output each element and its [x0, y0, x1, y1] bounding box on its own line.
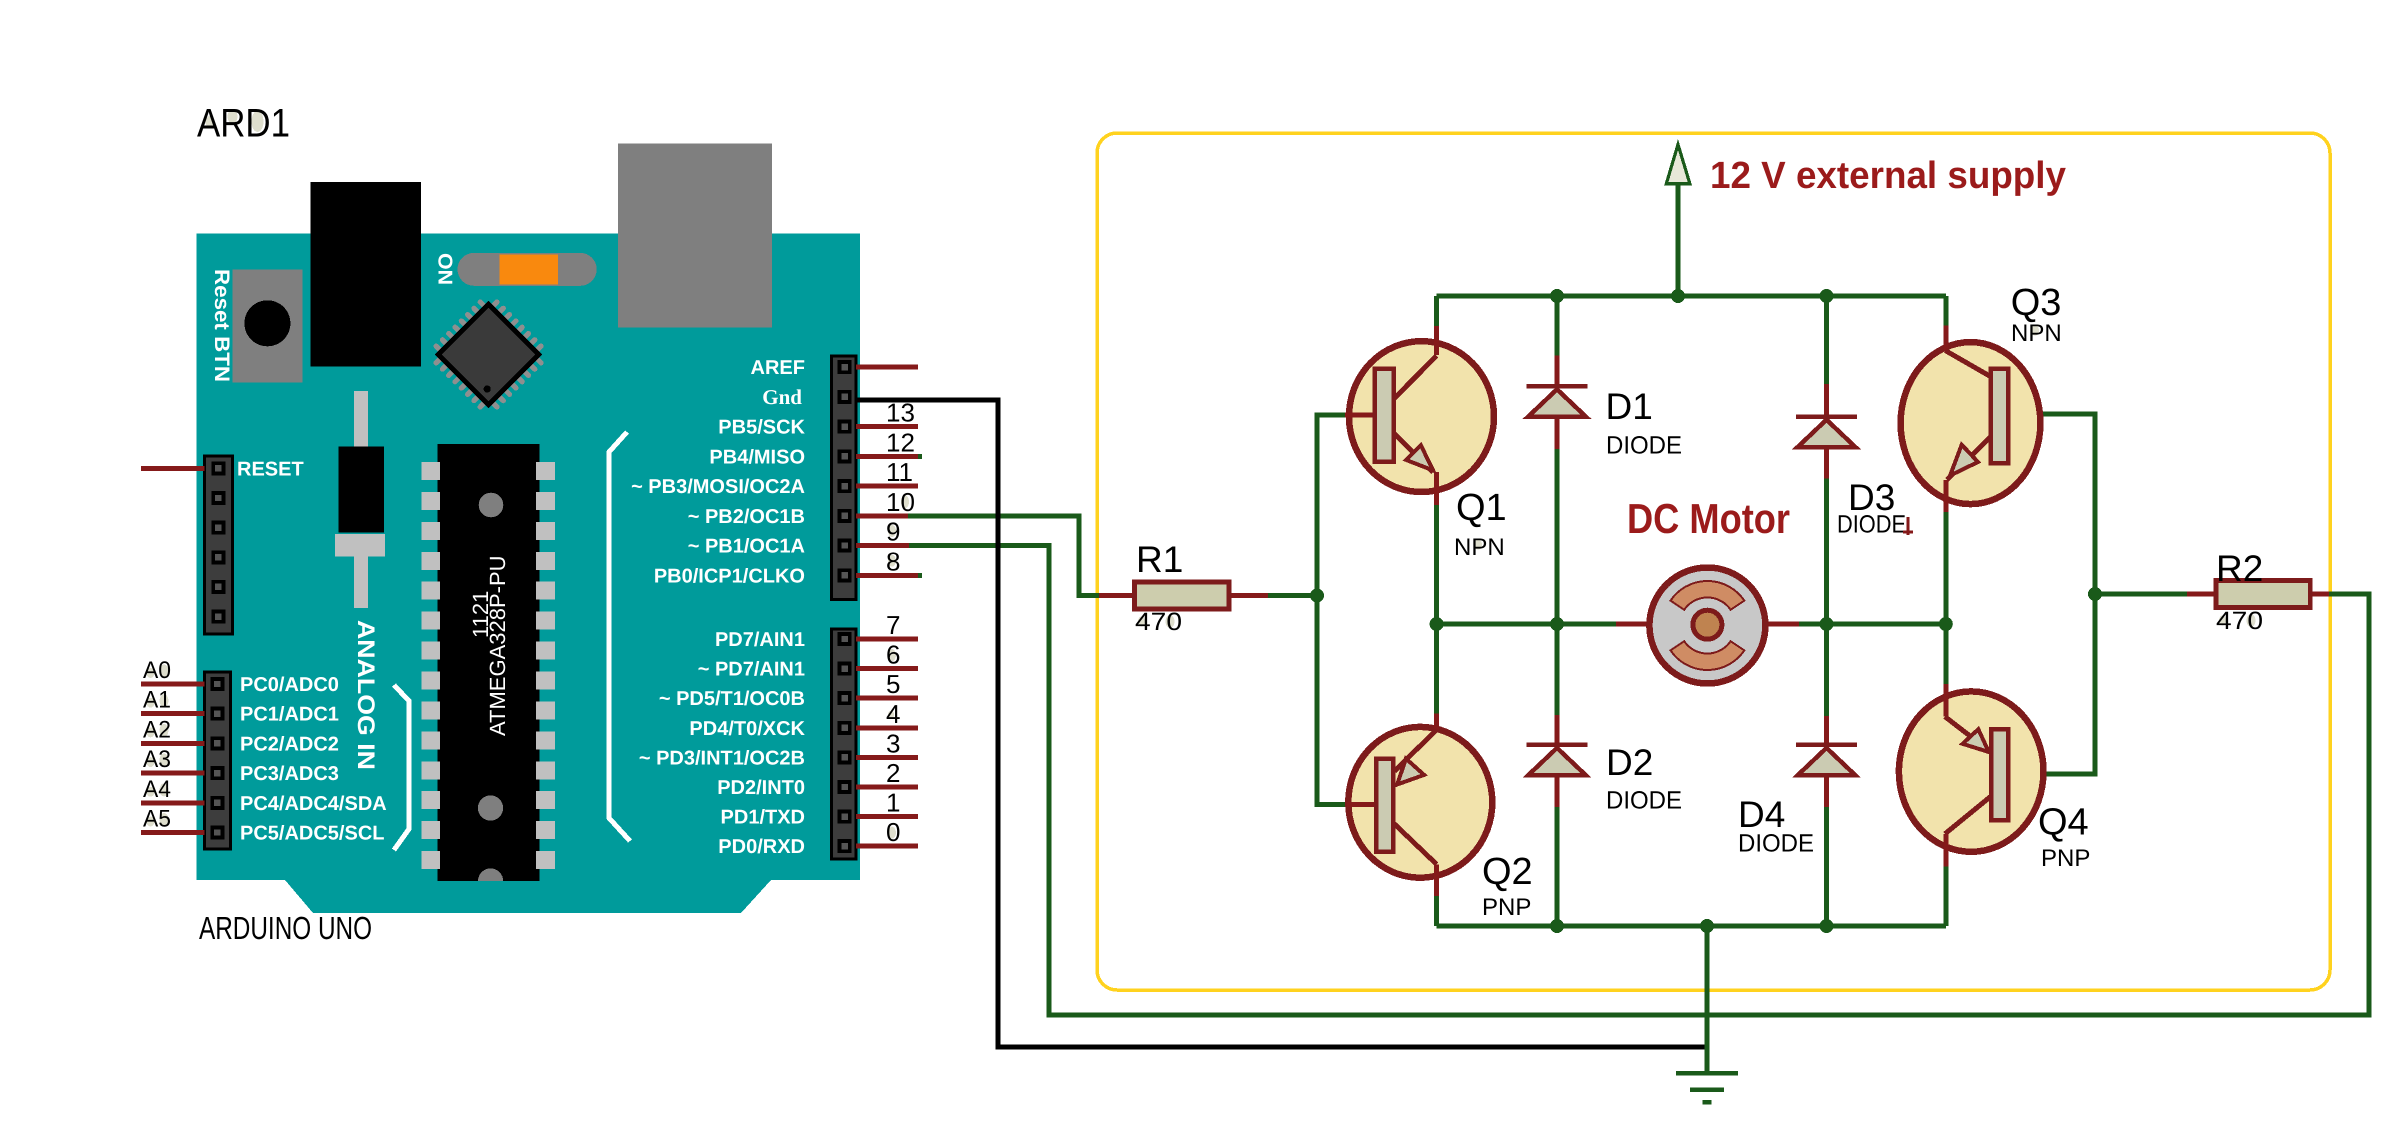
svg-text:PB4/MISO: PB4/MISO [709, 446, 805, 468]
svg-text:8: 8 [886, 546, 900, 576]
svg-text:A2: A2 [143, 716, 171, 743]
svg-text:PC2/ADC2: PC2/ADC2 [240, 733, 339, 755]
svg-text:A0: A0 [143, 657, 171, 684]
svg-text:Q2: Q2 [1482, 851, 1533, 893]
svg-text:PC1/ADC1: PC1/ADC1 [240, 704, 339, 726]
svg-text:ARDUINO UNO: ARDUINO UNO [199, 910, 372, 946]
svg-text:DIODE: DIODE [1606, 432, 1682, 460]
svg-text:~ PD5/T1/OC0B: ~ PD5/T1/OC0B [659, 688, 805, 710]
svg-text:PB5/SCK: PB5/SCK [718, 417, 805, 439]
svg-text:ATMEGA328P-PU: ATMEGA328P-PU [485, 555, 510, 736]
svg-text:ARD1: ARD1 [197, 102, 290, 146]
svg-text:~ PD7/AIN1: ~ PD7/AIN1 [698, 659, 805, 681]
svg-text:~ PD3/INT1/OC2B: ~ PD3/INT1/OC2B [639, 747, 805, 769]
svg-text:Q1: Q1 [1456, 487, 1507, 529]
svg-text:PD4/T0/XCK: PD4/T0/XCK [689, 718, 805, 740]
svg-text:PC5/ADC5/SCL: PC5/ADC5/SCL [240, 823, 384, 845]
svg-text:ON: ON [434, 253, 456, 285]
svg-text:12 V external supply: 12 V external supply [1710, 155, 2066, 197]
svg-text:470: 470 [2216, 607, 2263, 635]
svg-text:~ PB3/MOSI/OC2A: ~ PB3/MOSI/OC2A [631, 476, 805, 498]
svg-text:Q3: Q3 [2011, 282, 2062, 324]
svg-text:~ PB2/OC1B: ~ PB2/OC1B [688, 506, 805, 528]
svg-text:A4: A4 [143, 776, 171, 803]
svg-text:A1: A1 [143, 687, 171, 714]
svg-text:DIODE: DIODE [1837, 511, 1906, 539]
svg-text:PD2/INT0: PD2/INT0 [717, 777, 805, 799]
svg-text:PB0/ICP1/CLKO: PB0/ICP1/CLKO [654, 565, 805, 587]
svg-text:PC0/ADC0: PC0/ADC0 [240, 674, 339, 696]
svg-text:R2: R2 [2216, 548, 2263, 589]
svg-text:AREF: AREF [751, 357, 805, 379]
svg-text:A3: A3 [143, 746, 171, 773]
svg-text:7: 7 [886, 610, 900, 640]
svg-text:470: 470 [1135, 608, 1182, 636]
svg-text:Reset BTN: Reset BTN [210, 269, 233, 382]
svg-text:R1: R1 [1136, 539, 1183, 580]
svg-text:NPN: NPN [2011, 320, 2062, 347]
svg-text:11: 11 [886, 457, 913, 487]
svg-text:DIODE: DIODE [1738, 830, 1814, 858]
svg-text:2: 2 [886, 758, 900, 788]
svg-text:A5: A5 [143, 806, 171, 833]
svg-text:3: 3 [886, 728, 900, 758]
svg-text:DIODE: DIODE [1606, 787, 1682, 815]
svg-text:5: 5 [886, 669, 900, 699]
svg-text:ANALOG IN: ANALOG IN [352, 620, 379, 770]
svg-text:PD0/RXD: PD0/RXD [718, 836, 805, 858]
svg-text:Q4: Q4 [2038, 802, 2089, 844]
svg-text:D1: D1 [1606, 386, 1653, 427]
svg-text:PD1/TXD: PD1/TXD [721, 807, 805, 829]
svg-text:PC4/ADC4/SDA: PC4/ADC4/SDA [240, 793, 387, 815]
svg-text:PD7/AIN1: PD7/AIN1 [715, 629, 805, 651]
svg-text:DC Motor: DC Motor [1627, 495, 1790, 542]
svg-text:1: 1 [886, 788, 900, 818]
svg-text:Gnd: Gnd [762, 385, 802, 409]
svg-text:0: 0 [886, 817, 900, 847]
svg-text:4: 4 [886, 699, 900, 729]
svg-text:PNP: PNP [2041, 845, 2090, 872]
svg-text:9: 9 [886, 517, 900, 547]
svg-text:D2: D2 [1606, 742, 1653, 783]
svg-text:PC3/ADC3: PC3/ADC3 [240, 763, 339, 785]
svg-text:PNP: PNP [1482, 894, 1531, 921]
svg-text:12: 12 [886, 427, 915, 457]
svg-text:RESET: RESET [237, 458, 304, 480]
svg-text:6: 6 [886, 640, 900, 670]
svg-text:~ PB1/OC1A: ~ PB1/OC1A [688, 536, 805, 558]
svg-text:10: 10 [886, 487, 915, 517]
svg-text:NPN: NPN [1454, 534, 1505, 561]
